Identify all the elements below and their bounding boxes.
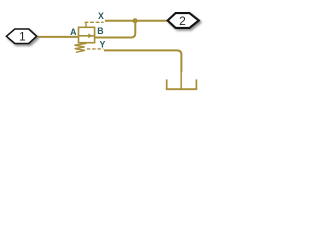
tank T1: inlet pipe [180,72,182,90]
valve pilot dashed line to Y [87,48,104,50]
valve spring [74,43,86,52]
wire: port 1 to valve port A [36,36,78,38]
valve pilot stub to X [85,22,87,28]
port block 2 [168,13,199,28]
valve pilot dashed line to X [85,21,104,23]
tank T1: right wall [195,79,197,89]
port block 1 [6,29,36,44]
valve U1: body square [79,27,95,42]
wire: valve X to port 2 [105,20,167,22]
svg-text:A: A [70,27,77,37]
junction dot [133,18,138,23]
tank T1: left wall [166,79,168,89]
svg-text:2: 2 [179,14,186,28]
wire: valve B to junction [95,21,136,38]
wire: valve Y to tank [104,50,181,72]
port block 1 shadow [8,31,38,46]
svg-text:B: B [97,26,103,36]
valve arrowhead [88,33,92,38]
valve flow line [79,35,95,37]
svg-text:Y: Y [99,39,105,49]
svg-text:X: X [98,11,104,21]
tank T1: bottom [166,88,197,90]
port block 2 shadow [169,15,200,30]
svg-text:1: 1 [19,29,26,43]
